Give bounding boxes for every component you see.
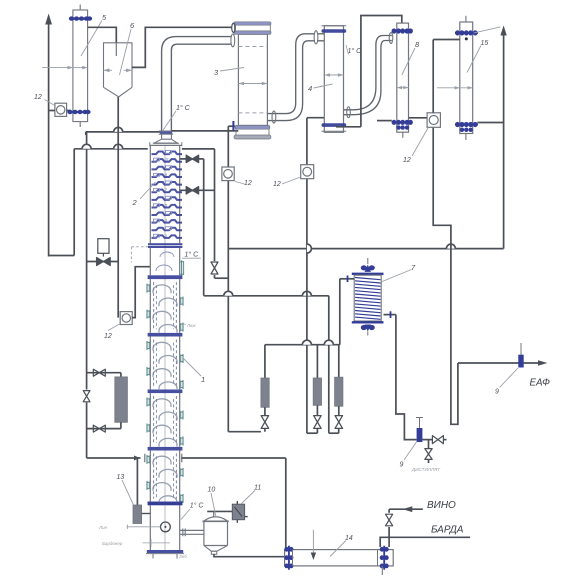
wire: bottom line y=126.8 under exchanger 4 — [336, 126, 361, 128]
wire: riser x=214.5 down through seal valve — [214, 149, 216, 278]
exchanger 3 top-left nozzle flanges — [232, 23, 236, 32]
valve: bypass upper valve — [93, 369, 105, 376]
wire: stub left of exchanger 8 bottom — [377, 120, 392, 122]
flange bolts bottom of exchanger 5 — [68, 111, 90, 113]
vessel 10 (bottoms receiver) — [204, 517, 228, 521]
bump of x=306.9 over header y=248.6 — [307, 244, 312, 253]
wire: distillate line down from coil 7 — [396, 315, 417, 440]
valve under rotameter 2 — [314, 416, 322, 429]
exchanger 4 dimension arrows — [324, 74, 343, 76]
heat exchanger 4 shell — [324, 26, 343, 133]
node: exchanger 3 bottom-left nozzle flange — [232, 121, 234, 131]
svg-text:12: 12 — [244, 180, 252, 187]
valve: column draw-off 2 — [180, 189, 215, 191]
trays in section 2 — [153, 342, 171, 350]
node: bottom flange — [147, 550, 183, 553]
svg-text:6: 6 — [162, 196, 164, 200]
heat exchanger 5: vertical shell — [73, 10, 88, 122]
wire: top feed y=39.5 from x=433.2 — [433, 39, 460, 41]
svg-text:10: 10 — [208, 487, 216, 494]
coil 7 shell — [354, 275, 381, 321]
svg-text:5: 5 — [165, 203, 167, 207]
exchanger 8 bottom bolts — [392, 121, 413, 123]
wire: drop x=328.8 to bottom U — [328, 296, 330, 433]
svg-text:БАРДА: БАРДА — [431, 525, 464, 536]
faint internals feed section — [156, 265, 172, 271]
exchanger 3 dashed tube sheets — [238, 46, 267, 48]
rotameter R2 — [313, 378, 321, 405]
control valve 9 (distillate) — [419, 418, 421, 429]
svg-text:2: 2 — [161, 226, 164, 230]
wire: riser x=203.7 down — [203, 159, 205, 296]
heat exchanger 3 shell — [238, 34, 267, 125]
rotameter R3 drop from coil line — [338, 345, 340, 378]
wire: exchanger 15 bottom outlet y=122.5 — [477, 122, 503, 124]
node: intermediate flange of column — [148, 243, 182, 245]
pipe: column to vessel 10 (double) — [180, 529, 204, 531]
nozzles on section 2 — [147, 342, 151, 344]
svg-text:1: 1 — [165, 234, 167, 238]
wire: wine feed downcomer x=86.6 — [86, 132, 88, 458]
svg-text:1° С: 1° С — [190, 502, 205, 510]
wire: U bottom from x=306.9 to rotameter 2 — [307, 432, 318, 434]
wire: y=117.7 to exchanger 4 bottom — [307, 117, 324, 119]
wire: main feed header y=458 left of column — [87, 457, 141, 459]
exchanger 8 dimension arrows — [397, 87, 409, 89]
svg-text:Знб: Знб — [179, 554, 187, 559]
exchanger 14 bottom stub — [381, 566, 383, 575]
column top cone — [161, 134, 163, 139]
separator vessel 6 — [104, 43, 133, 88]
coil 7 spiral — [355, 278, 381, 320]
wire: vessel 6 downpipe x=118.2 — [117, 97, 119, 318]
svg-text:12: 12 — [403, 157, 411, 164]
wire: horizontal y=131.9 from x=86.6 to column neck flange — [86, 131, 160, 133]
svg-text:1° С: 1° С — [176, 104, 191, 112]
component 13: level device on drum — [136, 458, 138, 505]
pipe: vapor line column top to exchanger 3 (double) — [162, 37, 232, 132]
wire: bypass drop into rotameter — [120, 373, 122, 378]
wire: drop x=285.8 to exchanger 14 — [285, 458, 287, 550]
wire: drain y=431.7 to rotameter 1 — [228, 431, 261, 433]
exchanger 3 bottom bands — [235, 125, 270, 129]
svg-text:ДИСТИЛЛЯТ: ДИСТИЛЛЯТ — [411, 467, 441, 472]
svg-text:4: 4 — [162, 211, 164, 215]
svg-text:9: 9 — [495, 389, 499, 396]
column 2: bubble-cap trays of upper section — [152, 152, 183, 155]
label 12 leader — [108, 324, 120, 331]
wire: vessel 6 side outlet to exchanger 3 top — [132, 27, 232, 67]
wire: coil 7 right outlet — [384, 314, 396, 316]
exchanger 3 top cap — [234, 22, 271, 25]
control valve 9 (EAF) — [520, 343, 522, 355]
wire: control valve line y=261.5 — [87, 261, 119, 263]
wire: riser x=228.3 (to instrument and drains) — [227, 126, 229, 432]
wire: jog y=278.2 — [215, 277, 229, 279]
node: feed nozzle flange at column left — [144, 454, 146, 462]
wire: vessel 6 inlet dip tube — [115, 43, 117, 56]
column 1: exhausting part sections — [148, 275, 183, 279]
instrument 12: top-left indicator — [55, 103, 67, 116]
nozzles on section 4 — [147, 455, 151, 457]
wire: after valve tee — [422, 439, 432, 441]
dimension line exchanger 5 — [42, 67, 88, 69]
wire: horizontal y=148.8 from x=74.2 to column collar — [74, 148, 148, 150]
thin leader: Lin to sight glass — [126, 526, 160, 528]
heat exchanger 8 shell — [397, 23, 409, 132]
wire: header y=248.6 from x=228.3 to x=503.6 — [228, 248, 503, 250]
valve: wine inlet valve — [388, 509, 390, 547]
svg-text:12: 12 — [273, 181, 281, 188]
valve under rotameter 1 — [261, 416, 269, 429]
wire: bypass lower stub — [120, 422, 122, 428]
control valve: reflux control valve with actuator — [98, 239, 109, 254]
wire: x=433.2 from instrument down, jog to x=450.9, down to seal — [433, 127, 458, 424]
exchanger 8 bottom cap stub — [402, 132, 404, 138]
wire: collar line y=148.9 right segment — [182, 148, 215, 150]
valve under rotameter 3 — [335, 416, 343, 429]
valve: bypass lower valve — [93, 425, 105, 432]
wire: vessel 10 drain to exchanger 14 — [214, 554, 285, 557]
svg-text:9: 9 — [400, 462, 404, 469]
svg-text:1: 1 — [201, 375, 205, 384]
wire: riser x=503.6 with top arrow — [503, 34, 505, 249]
svg-text:12: 12 — [104, 333, 112, 340]
exchanger 3 dimension arrows — [238, 83, 267, 85]
flange bolts top of exchanger 5 — [70, 18, 92, 20]
svg-text:12: 12 — [162, 150, 166, 154]
component 11: condenser block — [232, 504, 244, 520]
vessel 6 cone bottom — [104, 87, 133, 97]
wire: jog y=255.5 to left riser — [49, 255, 75, 257]
exchanger 8 top bolts — [392, 30, 413, 32]
wire: BARDA outlet line — [380, 537, 470, 547]
svg-text:ВИНО: ВИНО — [427, 500, 456, 511]
instrument 12 under exchanger 8 — [427, 113, 440, 128]
column bottom drum — [149, 505, 151, 550]
svg-text:1° С: 1° С — [185, 251, 200, 259]
wire: bypass upper branch y=372.7 — [87, 372, 121, 374]
pipe: S-curve exchanger 3 to exchanger 4 (double) — [267, 34, 315, 114]
svg-text:13: 13 — [117, 474, 125, 481]
svg-text:Люк: Люк — [186, 323, 196, 328]
exchanger 15 dimension — [437, 87, 473, 89]
wire: drop to rotameter 1 — [264, 345, 266, 378]
svg-text:9: 9 — [165, 173, 167, 177]
wire: WINE inlet line with arrow — [389, 508, 423, 510]
wire: coil 7 left inlet down to rotameter header — [340, 278, 354, 280]
column section 2 walls — [149, 337, 151, 390]
wire: from instrument up-right to column x=135 — [132, 267, 150, 318]
column section 1 walls — [149, 279, 151, 333]
wire: instrument stubs y=110.5 — [49, 110, 55, 112]
svg-text:2: 2 — [132, 198, 138, 207]
heat exchanger 15 shell — [460, 22, 473, 134]
valve: drain bowtie vertical below tee — [428, 440, 430, 449]
svg-text:Лин: Лин — [98, 525, 108, 530]
wire: feed header right of column y=458 — [181, 457, 286, 459]
svg-text:4: 4 — [308, 84, 312, 93]
vessel 6 dimension arrows — [104, 68, 110, 72]
thin leader: Bardoner line — [143, 542, 171, 544]
svg-text:12: 12 — [34, 94, 42, 101]
instrument 12: rotameter indicator mid-left — [120, 312, 132, 325]
wire: condensate return y=130.9 neck to exchanger 3 — [172, 130, 239, 132]
trays in section 3 — [153, 399, 171, 407]
instrument 12: right of middle pair — [306, 118, 308, 434]
svg-text:ЕАФ: ЕАФ — [530, 378, 551, 389]
coil 7 bottom plate — [352, 321, 384, 323]
wire: EAF product line — [458, 362, 541, 364]
drum legs — [152, 554, 154, 559]
wire: column thin centerline — [164, 146, 166, 550]
valve: vertical valve on x=214.5 — [210, 261, 219, 275]
column upper section walls (concentration part 2) — [149, 145, 151, 243]
nozzles on section 3 — [147, 398, 151, 400]
instrument 12: left of middle pair — [222, 167, 234, 181]
nozzles on section 1 — [147, 284, 151, 286]
svg-text:11: 11 — [165, 158, 169, 162]
column feed section walls — [149, 248, 151, 276]
rotameter R1 — [261, 378, 269, 407]
svg-text:8: 8 — [162, 181, 164, 185]
rotameter: gray cartridge on bypass — [115, 377, 128, 422]
sight glass on bottom drum — [161, 522, 171, 532]
wire: vessel 10 vapor line to block 11 — [213, 511, 215, 517]
svg-text:1° С: 1° С — [348, 47, 363, 55]
wire: top line y=15.5 to exchanger 8 vent — [361, 16, 402, 127]
trays in section 1 — [153, 285, 171, 293]
svg-text:10: 10 — [162, 165, 166, 169]
wire: tall left riser pipe with outlet arrow — [48, 24, 50, 257]
exchanger 14 left cap bolts — [288, 546, 290, 570]
svg-text:3: 3 — [165, 219, 167, 223]
wire: horizontal y=295.8 to x=328.8 — [204, 295, 329, 297]
column top rim — [153, 142, 179, 144]
wire: exchanger 8 right outlet to instrument — [409, 117, 428, 119]
exchanger 4 bottom flange band — [322, 123, 347, 127]
svg-text:15: 15 — [481, 40, 489, 47]
wire: exchanger 5 top to vessel 6 (y=27.3) — [88, 27, 117, 43]
exchanger 15 top bolts — [455, 32, 478, 34]
exchanger 14 right cap bolts — [383, 546, 385, 570]
coil 7 top plate — [352, 273, 384, 275]
column section 3 walls — [149, 393, 151, 447]
trays in section 4 — [153, 456, 171, 464]
pipe: exchanger 4 to exchanger 8 (double curve) — [344, 36, 392, 110]
svg-text:Бардонер: Бардонер — [102, 541, 123, 546]
exchanger 15 bottom bolts — [455, 124, 478, 126]
wire: dashed impulse line column to control valve — [131, 246, 149, 248]
valve: small vertical valve on feed line — [82, 390, 91, 403]
column section 4 walls — [149, 450, 151, 501]
coil heat exchanger 7 — [367, 258, 369, 264]
rotameter R3 — [335, 377, 343, 406]
flow arrow inside exchanger 14 — [312, 530, 314, 554]
wire: drop to rotameter 2 — [316, 345, 318, 378]
wire: rotameter feed header y=344.7 — [265, 344, 340, 346]
node: column neck flange — [160, 131, 172, 134]
valve: column draw-off 1 — [180, 158, 204, 160]
wire: branch x=74.2 from y=148.8 down to 255.5 — [73, 149, 75, 256]
svg-text:11: 11 — [254, 485, 261, 492]
exchanger 4 top flange band — [322, 29, 347, 32]
heat exchanger 14 (wine preheater) — [285, 550, 394, 566]
valve: side bowtie horizontal — [432, 436, 443, 444]
wire: bypass lower branch y=428.6 — [87, 428, 121, 430]
nozzle: right wall feed-section manhole (teal) — [180, 261, 184, 263]
